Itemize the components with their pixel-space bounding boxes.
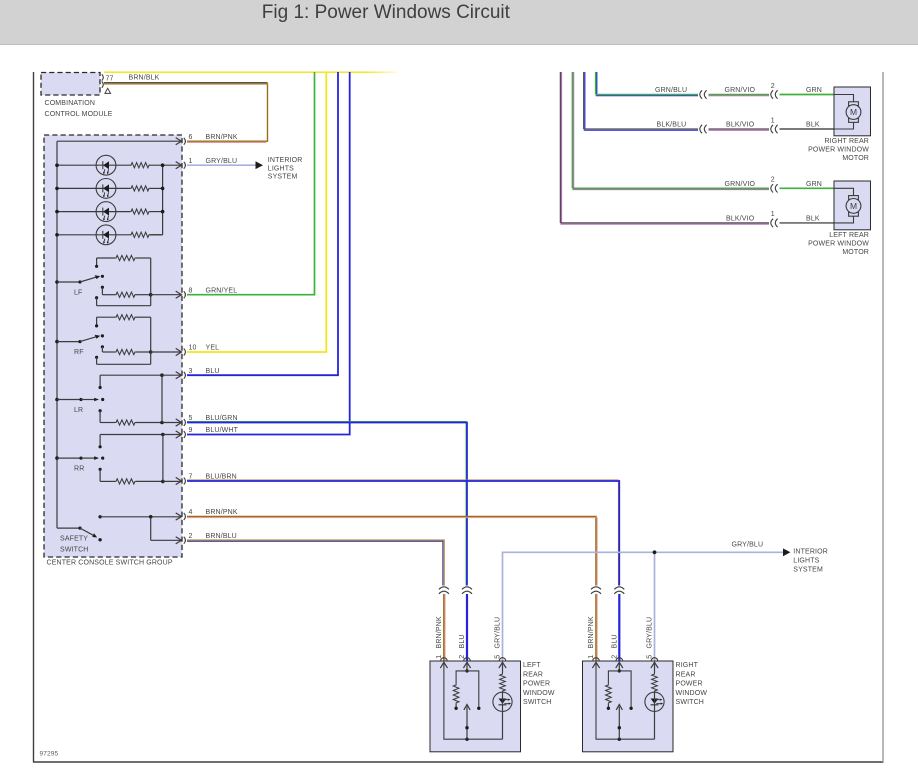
LED in switch [645,692,664,711]
svg-text:LF: LF [74,290,82,297]
svg-text:GRN/YEL: GRN/YEL [206,287,238,294]
svg-text:GRN: GRN [806,87,822,94]
pin 9 connector [176,431,182,438]
LED right bus wire [162,165,164,235]
inline connector at x=619.3 [614,587,624,590]
svg-text:3: 3 [189,368,193,375]
svg-text:BLK/VIO: BLK/VIO [726,122,755,129]
svg-text:GRY/BLU: GRY/BLU [495,617,502,649]
pin 6 connector [176,138,182,145]
wire BLU right switch pin 2 [618,594,620,661]
svg-text:SYSTEM: SYSTEM [268,174,298,181]
switch RR right vertical [162,435,164,482]
wire GRN left motor [780,187,835,189]
switch internal: pin2 branches [466,664,468,671]
svg-text:POWER: POWER [523,681,550,688]
wire BLU pin 3 [187,72,338,375]
switch internal: pin1 to bottom rail [444,664,503,740]
svg-text:WINDOW: WINDOW [676,690,708,697]
svg-text:BRN/PNK: BRN/PNK [206,509,238,516]
motor brush caps [849,196,859,200]
wire GRN/BLU vertical (right rear motor) [595,72,597,95]
svg-text:RR: RR [74,466,84,473]
resistor row 1 [130,163,150,168]
switch LF middle resistor rail [102,294,115,296]
svg-text:4: 4 [189,509,193,516]
svg-text:RF: RF [74,349,84,356]
header bar [0,0,918,44]
pin 8 connector [176,291,182,298]
wire GRY/BLU left switch pin 5 [503,552,784,661]
svg-text:YEL: YEL [206,345,220,352]
switch RF middle resistor rail [102,351,115,353]
switch LF middle contacts [101,275,104,278]
pin 10 connector [176,348,182,355]
svg-text:SWITCH: SWITCH [523,699,552,706]
safety switch pin4 rail [98,515,101,518]
svg-text:M: M [850,107,857,117]
switch LF blade [80,277,96,282]
wire BRN/PNK pin 4 [187,517,596,586]
switch internal resistor [606,684,612,704]
motor M circle [846,199,861,214]
svg-text:WINDOW: WINDOW [523,690,555,697]
svg-text:2: 2 [771,83,775,90]
wire BLU/GRN pin 5 [187,421,466,585]
switch RF middle contacts [101,334,104,337]
svg-text:10: 10 [189,345,197,352]
svg-text:CENTER CONSOLE SWITCH GROUP: CENTER CONSOLE SWITCH GROUP [47,560,173,567]
wire GRN/VIO vertical (left rear motor) [571,72,573,188]
LED indicator row 4 wire [57,234,130,236]
svg-text:REAR: REAR [523,671,543,678]
switch LF bottom rail [97,305,151,307]
connector dome pin [616,658,623,661]
svg-text:BLK/BLU: BLK/BLU [657,122,687,129]
svg-text:2: 2 [189,533,193,540]
wire BLU left switch pin 2 [466,594,468,661]
pin entry arrow [463,662,470,668]
pin 4 connector [176,513,182,520]
wire BLK/VIO vertical (left rear motor) [559,72,561,223]
safety switch pin2 rail [151,539,181,541]
svg-text:BRN/PNK: BRN/PNK [588,616,595,648]
svg-text:BLU: BLU [611,634,618,648]
svg-text:1: 1 [771,211,775,218]
wire GRN/VIO (right motor) [709,94,770,96]
svg-text:REAR: REAR [676,671,696,678]
switch LR lower resistor rail [100,422,115,424]
switch RR lower resistor rail [100,480,115,482]
pin entry arrow [616,662,623,668]
wire BLU/BRN pin 7 [187,480,618,586]
LED D1 [96,155,116,175]
switch LF pole from bus [55,280,59,284]
switch RF top resistor rail [97,316,115,318]
svg-text:BRN/PNK: BRN/PNK [206,134,238,141]
svg-text:POWER WINDOW: POWER WINDOW [808,146,869,153]
wire BLK left motor [780,222,835,224]
pin entry arrow [499,662,506,668]
svg-text:POWER WINDOW: POWER WINDOW [808,240,869,247]
switch RR lower contact [99,468,102,471]
switch RF upper contact [96,317,98,326]
safety switch pole [57,527,80,529]
wire GRN/YEL pin 8 [187,72,315,295]
wire BRN/BLU pin 2 [187,540,444,585]
svg-text:8: 8 [189,287,193,294]
wire GRN/VIO horizontal (left motor) [572,187,769,189]
svg-text:INTERIOR: INTERIOR [793,549,828,556]
svg-text:LIGHTS: LIGHTS [268,165,294,172]
switch internal: pin5 LED branch [654,664,656,674]
svg-text:GRN: GRN [806,181,822,188]
inline connector C2 BLK pin 1 [771,125,773,133]
switch RR pole from bus [55,456,59,460]
wire BLK right motor [780,128,835,130]
wire BLK/VIO horizontal (left motor) [560,222,769,224]
internal bus wire [56,141,58,528]
left rear power window switch box [430,661,521,752]
wire BRN/PNK right switch pin 1 [595,594,597,661]
svg-text:2: 2 [771,176,775,183]
svg-text:1: 1 [189,158,193,165]
svg-text:RIGHT REAR: RIGHT REAR [824,138,869,145]
center console switch group box [44,135,182,557]
svg-text:BLU: BLU [459,634,466,648]
LED in switch [493,692,512,711]
inline connector at x=443.9 [439,587,449,590]
svg-text:GRY/BLU: GRY/BLU [206,158,238,165]
switch internal: pin2 branches [618,664,620,671]
svg-text:BRN/PNK: BRN/PNK [436,616,443,648]
LED D2 [96,179,116,199]
right rear power window switch box [583,661,674,752]
pin 1 connector [176,162,182,169]
LED indicator row 1 wire [57,164,130,166]
svg-text:LEFT REAR: LEFT REAR [829,232,869,239]
wire BRN/BLK pin77 to pin6 [104,82,268,84]
svg-text:9: 9 [189,427,193,434]
arrow to interior lights system [256,161,264,169]
inline connector C2 GRN pin 2 [771,90,773,98]
wire YEL pin 10 [187,72,326,352]
LED D3 [96,202,116,222]
pin entry arrow [592,662,599,668]
svg-text:BLU: BLU [206,368,220,375]
connector dome pin [441,658,448,661]
arrow to interior lights system (bottom) [783,548,790,556]
inline connector C1 GRN [700,90,702,98]
motor brush caps [849,102,859,106]
connector dome pin [593,658,600,661]
LED indicator row 2 wire [57,187,130,189]
switch internal: pin1 to bottom rail [596,664,655,740]
svg-text:SYSTEM: SYSTEM [793,566,823,573]
junction node GRY/BLU [653,550,657,554]
frame right border [882,72,884,762]
frame bottom border [33,761,884,763]
svg-text:1: 1 [771,117,775,124]
connector dome pin [464,658,471,661]
frame left border [33,72,35,762]
inline connector at x=596 [591,587,601,590]
bus top rail to pin 6 [57,140,181,142]
switch blade (center) [466,707,468,740]
switch RF lower contact [95,356,98,359]
wire GRN right motor [780,94,835,96]
switch RF bottom rail [97,363,151,365]
svg-text:GRN/VIO: GRN/VIO [725,87,756,94]
wire BLK/VIO (right motor) [709,128,770,130]
wire GRY/BLU right switch pin 5 [654,552,656,661]
motor internal wiring [834,188,854,196]
switch internal: pin5 LED branch [502,664,504,674]
switch LR right vertical [161,375,163,422]
svg-text:BLK/VIO: BLK/VIO [726,215,755,222]
pin 3 connector [176,372,182,379]
svg-text:Fig 1: Power Windows Circuit: Fig 1: Power Windows Circuit [262,2,511,23]
svg-text:M: M [850,201,857,211]
connector dome pin [499,658,506,661]
wire BRN/PNK left switch pin 1 [443,594,445,661]
svg-text:SWITCH: SWITCH [60,547,89,554]
LED indicator row 3 wire [57,211,130,213]
svg-text:77: 77 [106,76,114,83]
wire BLU/WHT pin 9 [187,72,350,435]
resistor row 2 [130,186,150,191]
inline connector at x=467 [462,587,472,590]
svg-text:GRN/VIO: GRN/VIO [725,181,756,188]
switch LF lower contact [95,296,98,299]
switch RF blade [80,337,96,342]
switch LR blade [81,399,95,401]
svg-text:BLU/WHT: BLU/WHT [206,427,239,434]
svg-text:POWER: POWER [676,681,703,688]
wire BRN/PNK pink stripe pin 6 [187,142,266,144]
svg-text:GRN/BLU: GRN/BLU [655,87,687,94]
switch internal resistor [453,684,459,704]
svg-text:GRY/BLU: GRY/BLU [732,542,764,549]
svg-text:BRN/BLU: BRN/BLU [206,533,237,540]
svg-text:CONTROL MODULE: CONTROL MODULE [45,111,113,118]
svg-text:BRN/BLK: BRN/BLK [129,75,160,82]
svg-text:LR: LR [74,407,83,414]
inline connector left motor GRN pin 2 [771,184,773,192]
resistor row 3 [130,209,150,214]
svg-text:GRY/BLU: GRY/BLU [647,617,654,649]
right rear power window motor box [834,87,871,136]
switch RF right vertical [150,317,152,364]
pin 2 connector [176,537,182,544]
switch LF right vertical [150,258,152,306]
inline connector left motor BLK pin 1 [771,219,773,227]
svg-text:COMBINATION: COMBINATION [45,100,96,107]
svg-text:97295: 97295 [40,751,59,758]
safety switch blade [80,528,94,536]
resistor row 4 [130,232,150,237]
switch LR pole from bus [55,398,59,402]
switch RF pole from bus [55,340,59,344]
ground triangle symbol [105,88,111,93]
svg-text:BLK: BLK [806,122,820,129]
combination control module box [41,73,100,96]
svg-text:INTERIOR: INTERIOR [268,157,303,164]
inline connector C1 BLK [700,125,702,133]
wire GRN/BLU horizontal [596,94,698,96]
motor M circle [846,105,861,120]
wire GRY/BLU pin 1 [187,164,256,166]
pin 5 connector [176,419,182,426]
switch LF top resistor rail [97,257,115,259]
left rear power window motor box [834,181,871,230]
switch LR upper rail [100,374,162,376]
pin entry arrow [440,662,447,668]
switch LR lower contact [99,409,102,412]
pin 7 connector [176,477,182,484]
svg-text:LIGHTS: LIGHTS [793,558,819,565]
svg-text:BLK: BLK [806,215,820,222]
pin entry arrow [651,662,658,668]
svg-text:MOTOR: MOTOR [842,155,869,162]
svg-text:RIGHT: RIGHT [676,662,699,669]
svg-text:MOTOR: MOTOR [842,249,869,256]
motor internal wiring [834,95,854,103]
svg-text:6: 6 [189,134,193,141]
pin 77 connector [102,74,104,80]
connector dome pin [651,658,658,661]
wire BLK/BLU horizontal [584,128,698,130]
safety switch link pin4-pin2 [150,517,152,541]
svg-text:SAFETY: SAFETY [60,536,88,543]
LED D4 [96,225,116,245]
switch LF upper contact [96,258,98,266]
svg-text:LEFT: LEFT [523,662,541,669]
switch RR upper rail [100,434,163,436]
switch blade (center) [618,707,620,740]
switch RR blade [81,457,95,459]
wire BLK/BLU vertical (right rear motor) [583,72,585,129]
svg-text:SWITCH: SWITCH [676,699,705,706]
